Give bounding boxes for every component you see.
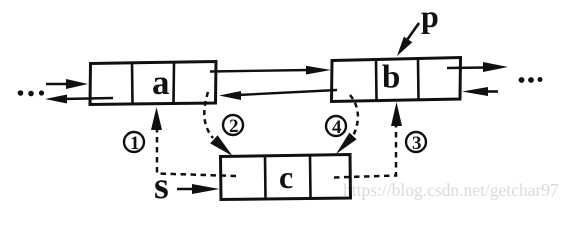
svg-text:b: b	[382, 60, 400, 96]
step circle 1	[124, 132, 144, 154]
arrow out of a to left	[45, 95, 113, 104]
svg-text:https://blog.csdn.net/getchar9: https://blog.csdn.net/getchar97	[343, 180, 559, 200]
svg-text:a: a	[152, 63, 170, 102]
pointer s arrow	[177, 184, 220, 194]
left ellipsis	[18, 90, 44, 96]
svg-text:4: 4	[332, 117, 342, 138]
arrowhead 3 up into b	[391, 102, 402, 126]
svg-text:2: 2	[229, 116, 239, 137]
arrow a to b	[210, 66, 331, 75]
svg-text:1: 1	[130, 133, 140, 154]
svg-text:3: 3	[412, 133, 422, 154]
node b box	[332, 58, 461, 102]
arrow into b from right	[462, 87, 498, 96]
dashed link 1: c.prior to a	[157, 128, 236, 176]
node c box	[221, 155, 351, 200]
right ellipsis	[519, 77, 543, 83]
arrowhead 1 up into a	[151, 107, 162, 130]
dashed link 4: b.prior to c	[350, 95, 358, 136]
svg-text:p: p	[421, 0, 439, 34]
step circle 2	[223, 115, 243, 137]
svg-text:c: c	[279, 159, 293, 195]
node a box	[90, 62, 216, 105]
arrow b to a	[219, 90, 337, 100]
arrowhead 4 down-left into c	[336, 133, 357, 154]
pointer p arrow	[397, 23, 419, 56]
arrowhead 2 down-right into c	[210, 135, 232, 156]
dashed link 2: a.next to c	[204, 92, 213, 138]
step circle 3	[406, 132, 426, 154]
dashed link 3: c.next to b	[334, 125, 396, 178]
arrow into a from left	[46, 79, 88, 89]
step circle 4	[326, 116, 346, 138]
arrow b to right	[447, 62, 508, 72]
